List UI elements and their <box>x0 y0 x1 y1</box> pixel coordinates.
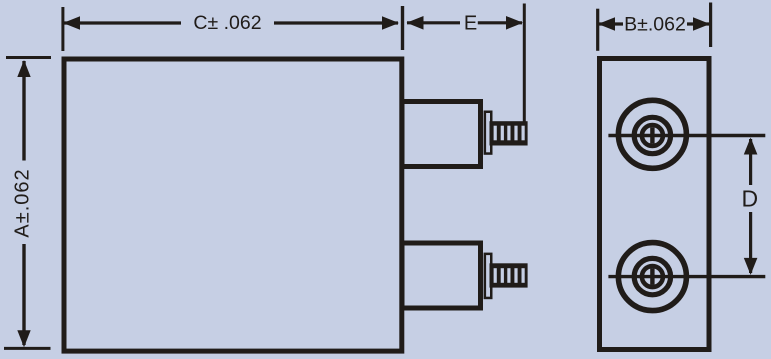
dimension D line <box>744 138 758 275</box>
terminal 1 centerline (end view) <box>608 134 765 137</box>
svg-text:C± .062: C± .062 <box>193 12 261 34</box>
dimension C/E shared extension line <box>401 6 404 50</box>
capacitor end view body <box>600 59 710 350</box>
terminal 2 rings (end view) <box>618 243 686 311</box>
svg-text:E: E <box>464 12 477 34</box>
dimension C extension line left <box>61 7 64 51</box>
terminal 2 flange <box>485 254 491 298</box>
terminal 1 rings (end view) <box>618 100 686 168</box>
dimension B line <box>598 17 710 31</box>
dimension B extension line right <box>709 3 712 48</box>
dimension A bottom tick <box>4 347 51 350</box>
dimension A top tick <box>6 56 51 59</box>
dimension A line <box>17 60 30 347</box>
dimension E line <box>407 16 524 30</box>
capacitor body (side view) <box>64 59 402 351</box>
terminal 1 threaded stud <box>490 121 528 145</box>
terminal 2 threaded stud <box>490 263 528 287</box>
svg-text:B±.062: B±.062 <box>624 14 686 36</box>
terminal 1 block (upper, side view) <box>402 102 481 167</box>
terminal 1 flange <box>485 112 491 154</box>
svg-text:A±.062: A±.062 <box>12 168 34 237</box>
svg-text:D: D <box>741 185 758 211</box>
terminal 2 centerline (end view) <box>608 275 765 278</box>
dimension B extension line left <box>596 9 599 51</box>
dimension E extension line right <box>523 4 526 123</box>
terminal 2 block (lower, side view) <box>402 243 481 308</box>
dimension C line <box>63 16 399 30</box>
